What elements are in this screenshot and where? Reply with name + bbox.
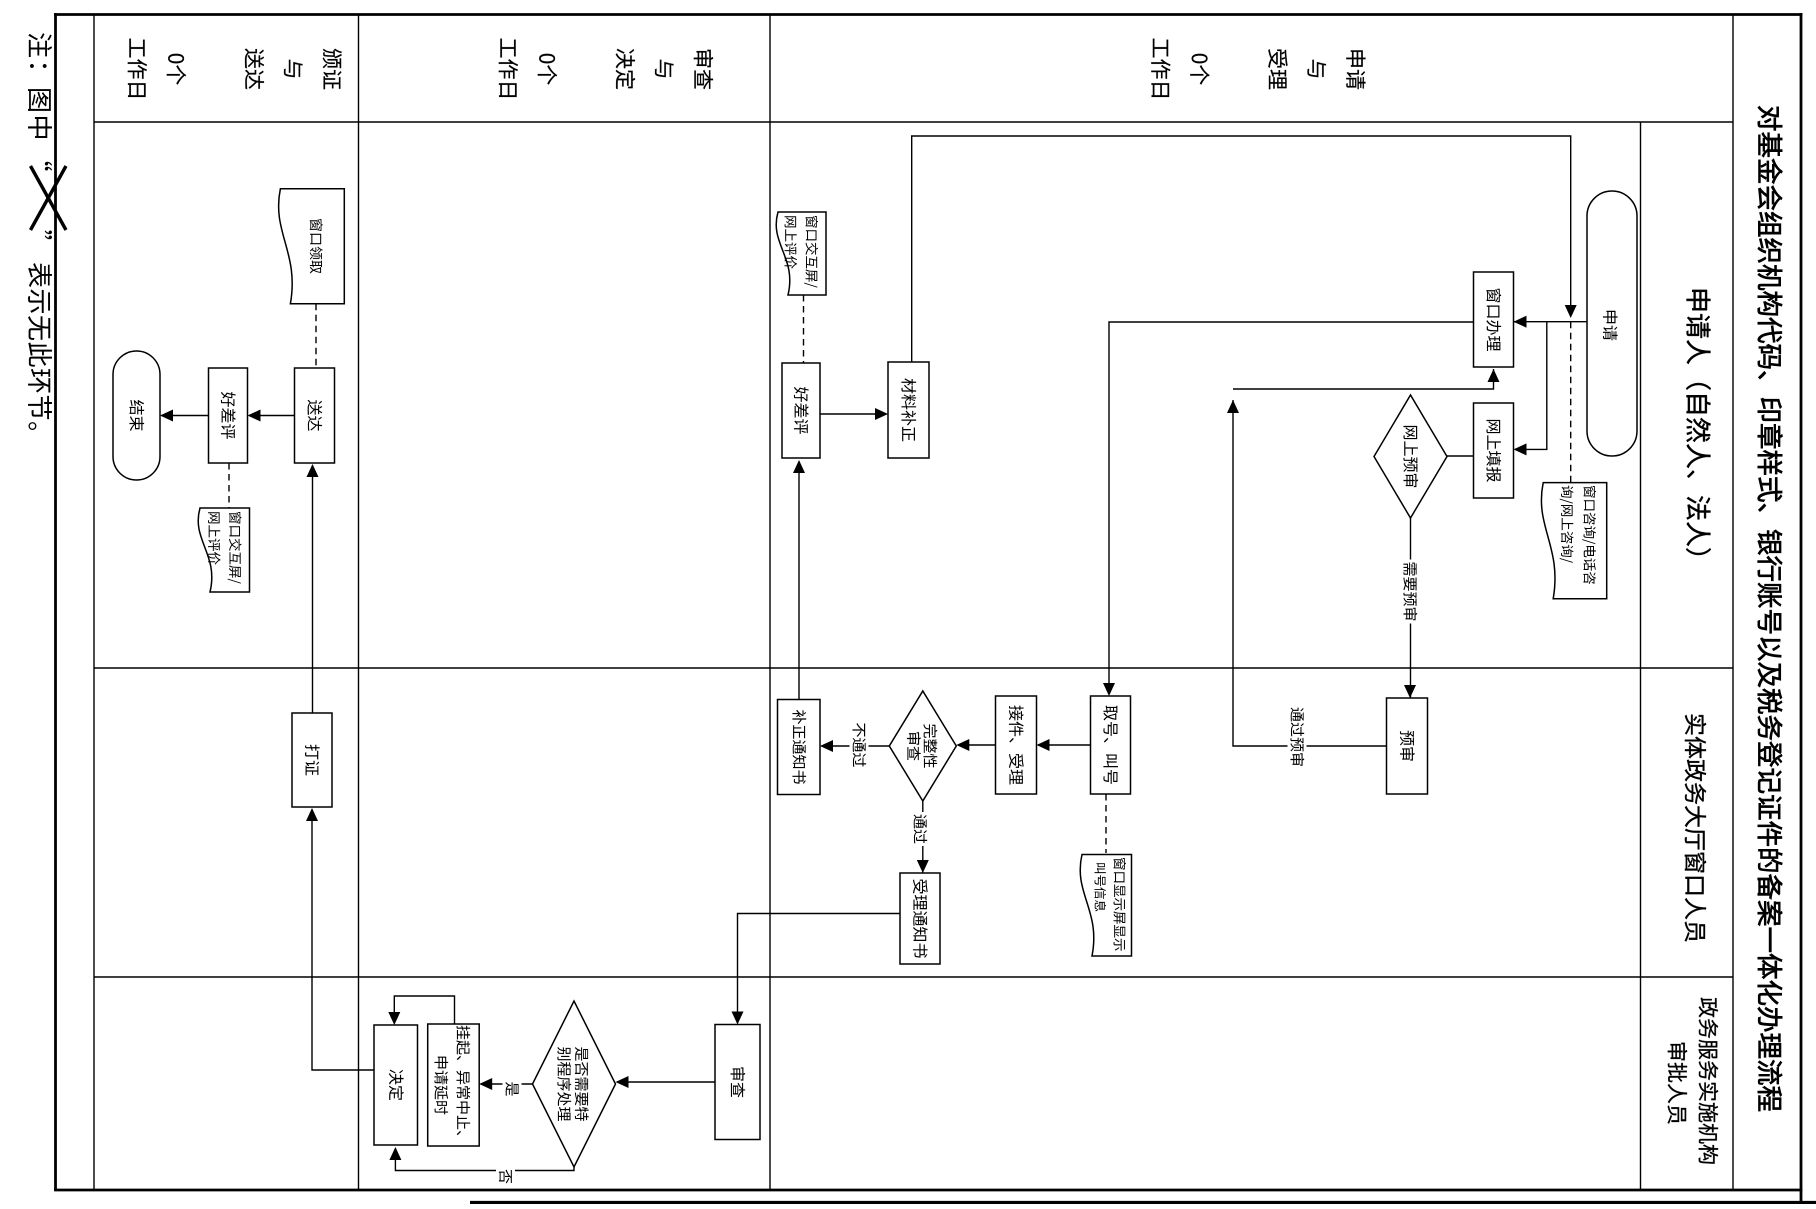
phase separator 1 (apply/accept | review/decide) — [769, 15, 771, 1191]
process 材料补正 — [888, 362, 929, 458]
wire 网上预审 -> 预审 with label 需要预审 — [1410, 518, 1412, 698]
dashed wire junction -> 咨询 document — [1570, 322, 1572, 483]
table outer top border — [1800, 13, 1803, 1204]
footnote X mark (no-such-step symbol) — [31, 166, 67, 230]
wire 受理通知书 -> 审查 — [738, 914, 901, 1024]
phase separator 2 (review/decide | issue/deliver) — [358, 15, 360, 1191]
footnote 注：图中 ✕ 表示无此环节。 — [28, 33, 52, 138]
wire 申请 -> 窗口办理 — [1514, 321, 1588, 323]
wire riser into 窗口办理 right edge — [1233, 369, 1494, 389]
process 取号、叫号 — [1091, 696, 1131, 794]
wire 完整性审查 -> 补正通知书 with label 不通过 — [822, 745, 890, 747]
phase label 审查与决定 0个工作日 — [694, 50, 713, 90]
table outer right border — [54, 1189, 1802, 1192]
wire 取号、叫号 -> 接件、受理 — [1038, 744, 1091, 746]
process 受理通知书 — [900, 873, 940, 964]
wire 审查 -> 是否需要特别程序处理 — [617, 1081, 715, 1083]
process 窗口办理 — [1474, 272, 1514, 367]
phase label 申请与受理 0个工作日 — [1346, 50, 1365, 89]
decision 完整性审查 (diamond) — [889, 691, 956, 801]
process 决定 — [374, 1025, 418, 1145]
document 窗口咨询/电话咨询/网上咨询/ — [1541, 483, 1606, 599]
wire 材料补正 -> junction above 窗口办理 (loop back) — [912, 136, 1571, 362]
wire 是否需要特别程序处理 -> 挂起 with label 是 — [481, 1083, 533, 1085]
decision 是否需要特别程序处理 (diamond) — [533, 1001, 616, 1167]
wire 好差评 -> 材料补正 — [820, 413, 887, 415]
document 窗口领取 — [279, 189, 345, 304]
process 送达 — [295, 368, 335, 463]
wire 好差评 -> 结束 — [162, 415, 209, 417]
page edge line (right) — [470, 1201, 1816, 1204]
dashed wire 取号、叫号 -> 窗口显示屏 document — [1105, 794, 1107, 853]
lane label 申请人（自然人、法人） — [1686, 290, 1711, 555]
process 网上填报 — [1474, 403, 1514, 498]
wire 挂起 -> 决定 (U loop) — [394, 996, 454, 1024]
dashed wire 窗口交互屏 document -> 好差评 — [803, 295, 805, 363]
document 窗口显示屏显示叫号信息 — [1080, 855, 1131, 957]
phase column right border — [94, 121, 1733, 123]
process 挂起、异常中止、申请延时 — [428, 1024, 480, 1146]
lane separator 2 (hall window staff | approval staff) — [94, 976, 1733, 978]
dashed wire 窗口领取 document -> 送达 — [315, 304, 317, 368]
document 窗口交互屏/网上评价 (lane1 upper) — [776, 212, 826, 295]
document 窗口交互屏/网上评价 (lower) — [198, 508, 249, 592]
start node 申请 (stadium) — [1587, 191, 1637, 456]
table outer bottom border — [54, 13, 57, 1191]
wire 补正通知书 -> 好差评 — [798, 462, 800, 700]
decision 网上预审 (diamond) — [1374, 395, 1447, 518]
table outer left border — [54, 13, 1802, 16]
process 好差评 (lane1 lower) — [209, 368, 248, 463]
wire 完整性审查 -> 受理通知书 with label 通过 — [922, 801, 924, 873]
process 接件、受理 — [996, 696, 1037, 794]
process 预审 — [1387, 698, 1428, 794]
wire junction -> 网上填报 — [1515, 322, 1547, 450]
wire 接件、受理 -> 完整性审查 — [958, 744, 996, 746]
wire 预审 -> 窗口办理 return (通过预审) — [1233, 400, 1387, 746]
wire 打证 -> 送达 — [312, 466, 314, 714]
wire 决定 -> 打证 — [312, 810, 374, 1071]
process 好差评 (lane1) — [782, 363, 820, 458]
wire 送达 -> 好差评 (lane1 lower) — [249, 415, 295, 417]
process 打证 — [292, 713, 332, 807]
lane label 政务服务实施机构 审批人员 — [1699, 998, 1719, 1164]
dashed wire 好差评 -> 窗口交互屏 document (lower) — [228, 463, 230, 508]
end node 结束 (stadium) — [113, 351, 160, 480]
wire 是否需要特别程序处理 -> 决定 with label 否 — [395, 1149, 574, 1171]
title 对基金会组织机构代码、印章样式、银行账号以及税务登记证件的备案一体化办理流程 — [1758, 106, 1783, 1111]
wire 窗口办理 -> 取号、叫号 — [1109, 322, 1474, 694]
lane separator 1 (applicant | hall window staff) — [94, 667, 1733, 669]
wire 网上填报 -> 网上预审 — [1447, 455, 1474, 457]
process 审查 — [715, 1025, 760, 1140]
process 补正通知书 — [778, 700, 821, 795]
lane label 实体政务大厅窗口人员 — [1685, 715, 1706, 942]
lane header row underline — [1640, 122, 1642, 1190]
label 通过预审 — [1288, 705, 1307, 769]
phase label 颁证与送达 0个工作日 — [323, 49, 342, 89]
bottom spare row line — [93, 15, 95, 1191]
title underline — [1732, 15, 1734, 1191]
